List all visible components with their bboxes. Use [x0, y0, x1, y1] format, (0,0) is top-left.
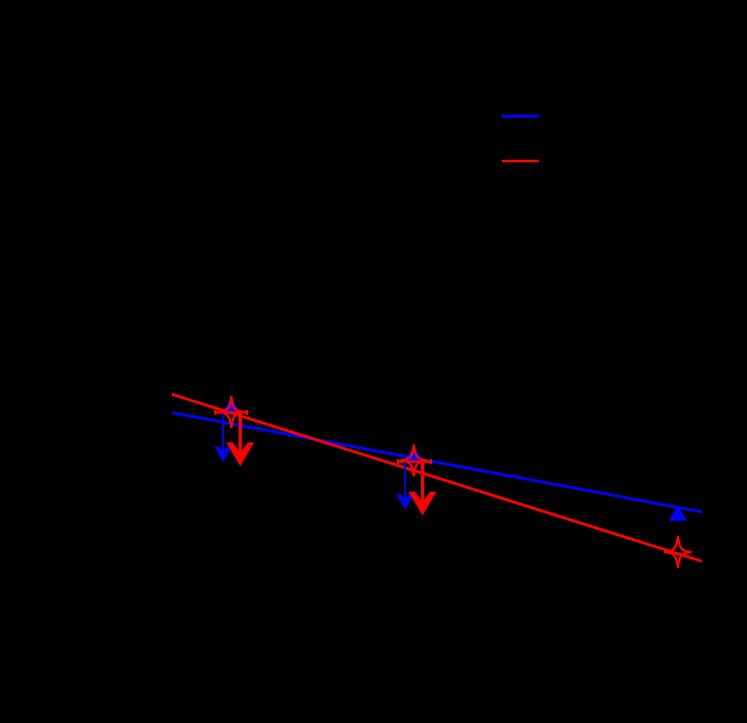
blue fit line [172, 413, 702, 512]
red fit line [172, 394, 702, 561]
cluster 2: red upper-limit arrow [409, 462, 437, 516]
cluster 1: red x error bar [215, 410, 247, 415]
cluster 1: blue upper-limit arrow [215, 413, 232, 462]
cluster 1: red open star marker [218, 396, 246, 428]
legend blue line sample [502, 115, 540, 118]
cluster 3: red open star marker [664, 536, 692, 568]
cluster 2: red open star marker [400, 445, 428, 477]
cluster 2: blue half-filled star marker [400, 447, 428, 461]
legend red line sample [502, 160, 539, 163]
cluster 2: blue upper-limit arrow [397, 462, 414, 510]
cluster 1: red upper-limit arrow [226, 413, 254, 466]
cluster 2: red x error bar [398, 459, 431, 464]
cluster 3: blue triangle marker [669, 505, 687, 521]
cluster 1: blue half-filled star marker [218, 398, 246, 412]
